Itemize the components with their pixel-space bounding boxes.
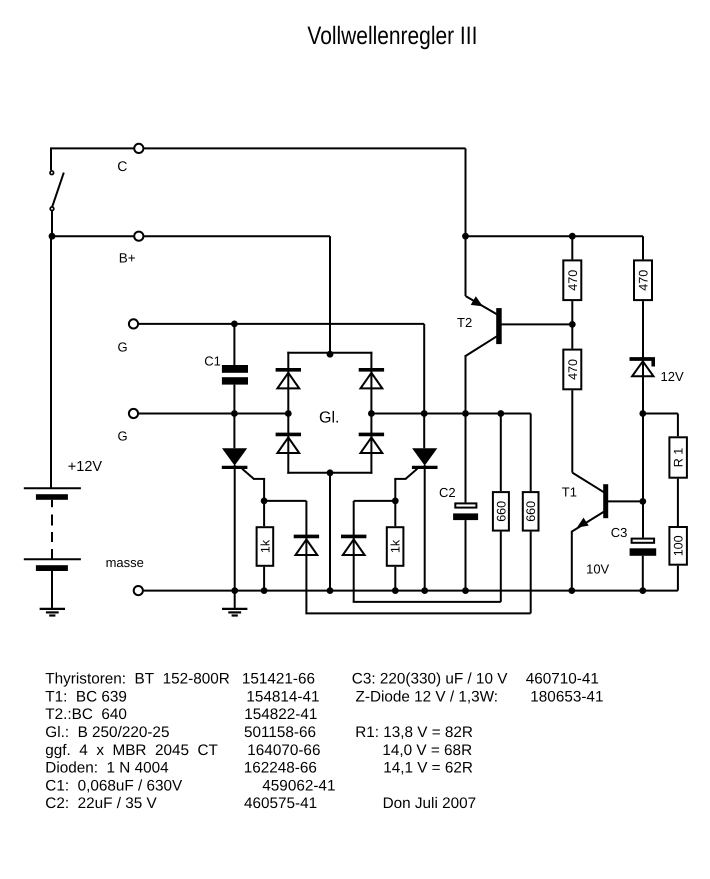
svg-text:154822-41: 154822-41 [244, 706, 317, 723]
svg-text:100: 100 [672, 535, 686, 556]
svg-text:B+: B+ [119, 250, 136, 265]
svg-text:12V: 12V [661, 369, 684, 384]
svg-text:C3: 220(330) uF / 10 V: C3: 220(330) uF / 10 V [352, 671, 508, 688]
svg-text:Dioden: 1 N 4004: Dioden: 1 N 4004 [45, 760, 169, 777]
svg-text:180653-41: 180653-41 [530, 688, 603, 705]
svg-text:C2: 22uF / 35 V: C2: 22uF / 35 V [45, 795, 157, 812]
svg-text:+12V: +12V [68, 459, 103, 475]
svg-text:501158-66: 501158-66 [244, 724, 316, 741]
svg-text:Gl.: B 250/220-25: Gl.: B 250/220-25 [45, 724, 169, 741]
svg-text:14,0 V = 68R: 14,0 V = 68R [382, 742, 472, 759]
svg-text:C3: C3 [611, 525, 628, 540]
svg-text:T2.:BC 640: T2.:BC 640 [45, 706, 127, 723]
svg-text:T2: T2 [457, 315, 472, 330]
svg-text:C1: C1 [204, 353, 221, 368]
svg-text:R 1: R 1 [672, 448, 686, 468]
svg-text:460710-41: 460710-41 [526, 671, 599, 688]
svg-text:G: G [118, 428, 128, 443]
svg-text:Z-Diode 12 V / 1,3W:: Z-Diode 12 V / 1,3W: [356, 688, 499, 705]
svg-text:154814-41: 154814-41 [246, 688, 319, 705]
svg-text:Vollwellenregler III: Vollwellenregler III [307, 22, 477, 50]
svg-text:Thyristoren: BT 152-800R: Thyristoren: BT 152-800R [45, 671, 230, 688]
svg-text:Gl.: Gl. [319, 410, 339, 427]
svg-text:T1: BC 639: T1: BC 639 [45, 688, 127, 705]
svg-text:C1: 0,068uF / 630V: C1: 0,068uF / 630V [45, 777, 183, 794]
svg-text:1k: 1k [389, 539, 403, 553]
svg-text:Don Juli 2007: Don Juli 2007 [383, 795, 477, 812]
svg-text:1k: 1k [258, 539, 272, 553]
svg-text:151421-66: 151421-66 [242, 671, 315, 688]
svg-text:T1: T1 [562, 485, 577, 500]
svg-text:470: 470 [566, 270, 580, 291]
svg-text:470: 470 [637, 270, 651, 291]
svg-text:R1: 13,8 V = 82R: R1: 13,8 V = 82R [355, 724, 473, 741]
svg-text:masse: masse [106, 555, 144, 570]
svg-text:164070-66: 164070-66 [247, 742, 320, 759]
svg-text:460575-41: 460575-41 [244, 795, 317, 812]
svg-text:470: 470 [566, 359, 580, 380]
svg-text:660: 660 [524, 501, 538, 522]
svg-text:G: G [118, 340, 128, 355]
svg-text:C2: C2 [439, 485, 456, 500]
svg-text:10V: 10V [586, 562, 609, 577]
svg-text:660: 660 [494, 501, 508, 522]
svg-text:162248-66: 162248-66 [244, 760, 317, 777]
svg-text:459062-41: 459062-41 [262, 777, 335, 794]
svg-text:C: C [117, 158, 127, 174]
svg-text:ggf. 4 x MBR 2045 CT: ggf. 4 x MBR 2045 CT [45, 742, 218, 759]
svg-text:14,1 V = 62R: 14,1 V = 62R [383, 760, 473, 777]
